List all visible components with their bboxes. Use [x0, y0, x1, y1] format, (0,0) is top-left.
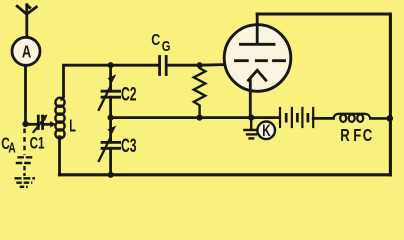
wire top rail C2-branch to CG	[109, 65, 112, 89]
wire junction to battery	[251, 116, 278, 119]
svg-text:A: A	[8, 140, 15, 156]
capacitor C3	[99, 118, 120, 161]
svg-text:G: G	[162, 38, 171, 55]
wire cathode down	[249, 81, 252, 118]
wire junction to C1	[26, 123, 38, 126]
label CA	[1, 135, 15, 156]
node grid	[197, 62, 203, 68]
node antenna junction	[22, 121, 28, 127]
wire plate top rail	[257, 12, 390, 15]
capacitor CA dashed to ground (antenna capacitance)	[15, 129, 36, 187]
svg-text:F: F	[353, 126, 361, 145]
antenna	[17, 5, 36, 37]
svg-text:R: R	[340, 126, 349, 145]
key K	[257, 122, 275, 141]
node C2/C3 midpoint	[108, 115, 114, 121]
wire cathode line	[111, 116, 252, 119]
wire bottom rail	[60, 173, 391, 176]
tube grid (dashed)	[236, 59, 285, 62]
wire CG to tube grid	[168, 63, 228, 66]
wire right vertical	[389, 14, 392, 175]
node cathode junction	[248, 115, 254, 121]
wire tank top-left corner	[64, 65, 159, 96]
capacitor C2	[99, 74, 120, 110]
wire antenna down	[24, 66, 27, 124]
tube V1 envelope	[224, 25, 291, 92]
wire C3 to bottom rail	[109, 148, 112, 175]
capacitor CG	[160, 57, 167, 75]
svg-text:C3: C3	[121, 136, 137, 157]
svg-text:A: A	[22, 42, 31, 62]
svg-text:C: C	[363, 126, 372, 145]
svg-text:K: K	[262, 122, 271, 141]
tube plate	[241, 14, 275, 44]
wire C2 to mid node	[109, 97, 112, 117]
node tank top (C2 branch)	[108, 62, 114, 68]
battery B	[280, 107, 313, 128]
inductor RFC	[333, 114, 389, 122]
label RFC	[340, 126, 372, 145]
resistor grid leak	[194, 65, 206, 117]
wire battery to RFC	[313, 117, 333, 120]
capacitor C1	[34, 115, 48, 133]
wire C1 to coil tap with arrowhead	[43, 121, 56, 128]
node RFC right	[387, 115, 394, 122]
svg-text:C2: C2	[121, 85, 137, 106]
node resistor bottom	[197, 115, 203, 121]
tube filament	[248, 70, 265, 80]
svg-text:L: L	[69, 117, 76, 136]
svg-text:C: C	[151, 32, 160, 50]
label CG	[151, 32, 170, 55]
svg-text:C1: C1	[30, 134, 45, 153]
ground cathode	[243, 118, 259, 139]
wire coil bottom to bottom rail	[58, 137, 61, 175]
inductor L	[55, 97, 64, 141]
ammeter A (U-meter)	[12, 37, 40, 65]
node C3 bottom	[108, 172, 114, 178]
